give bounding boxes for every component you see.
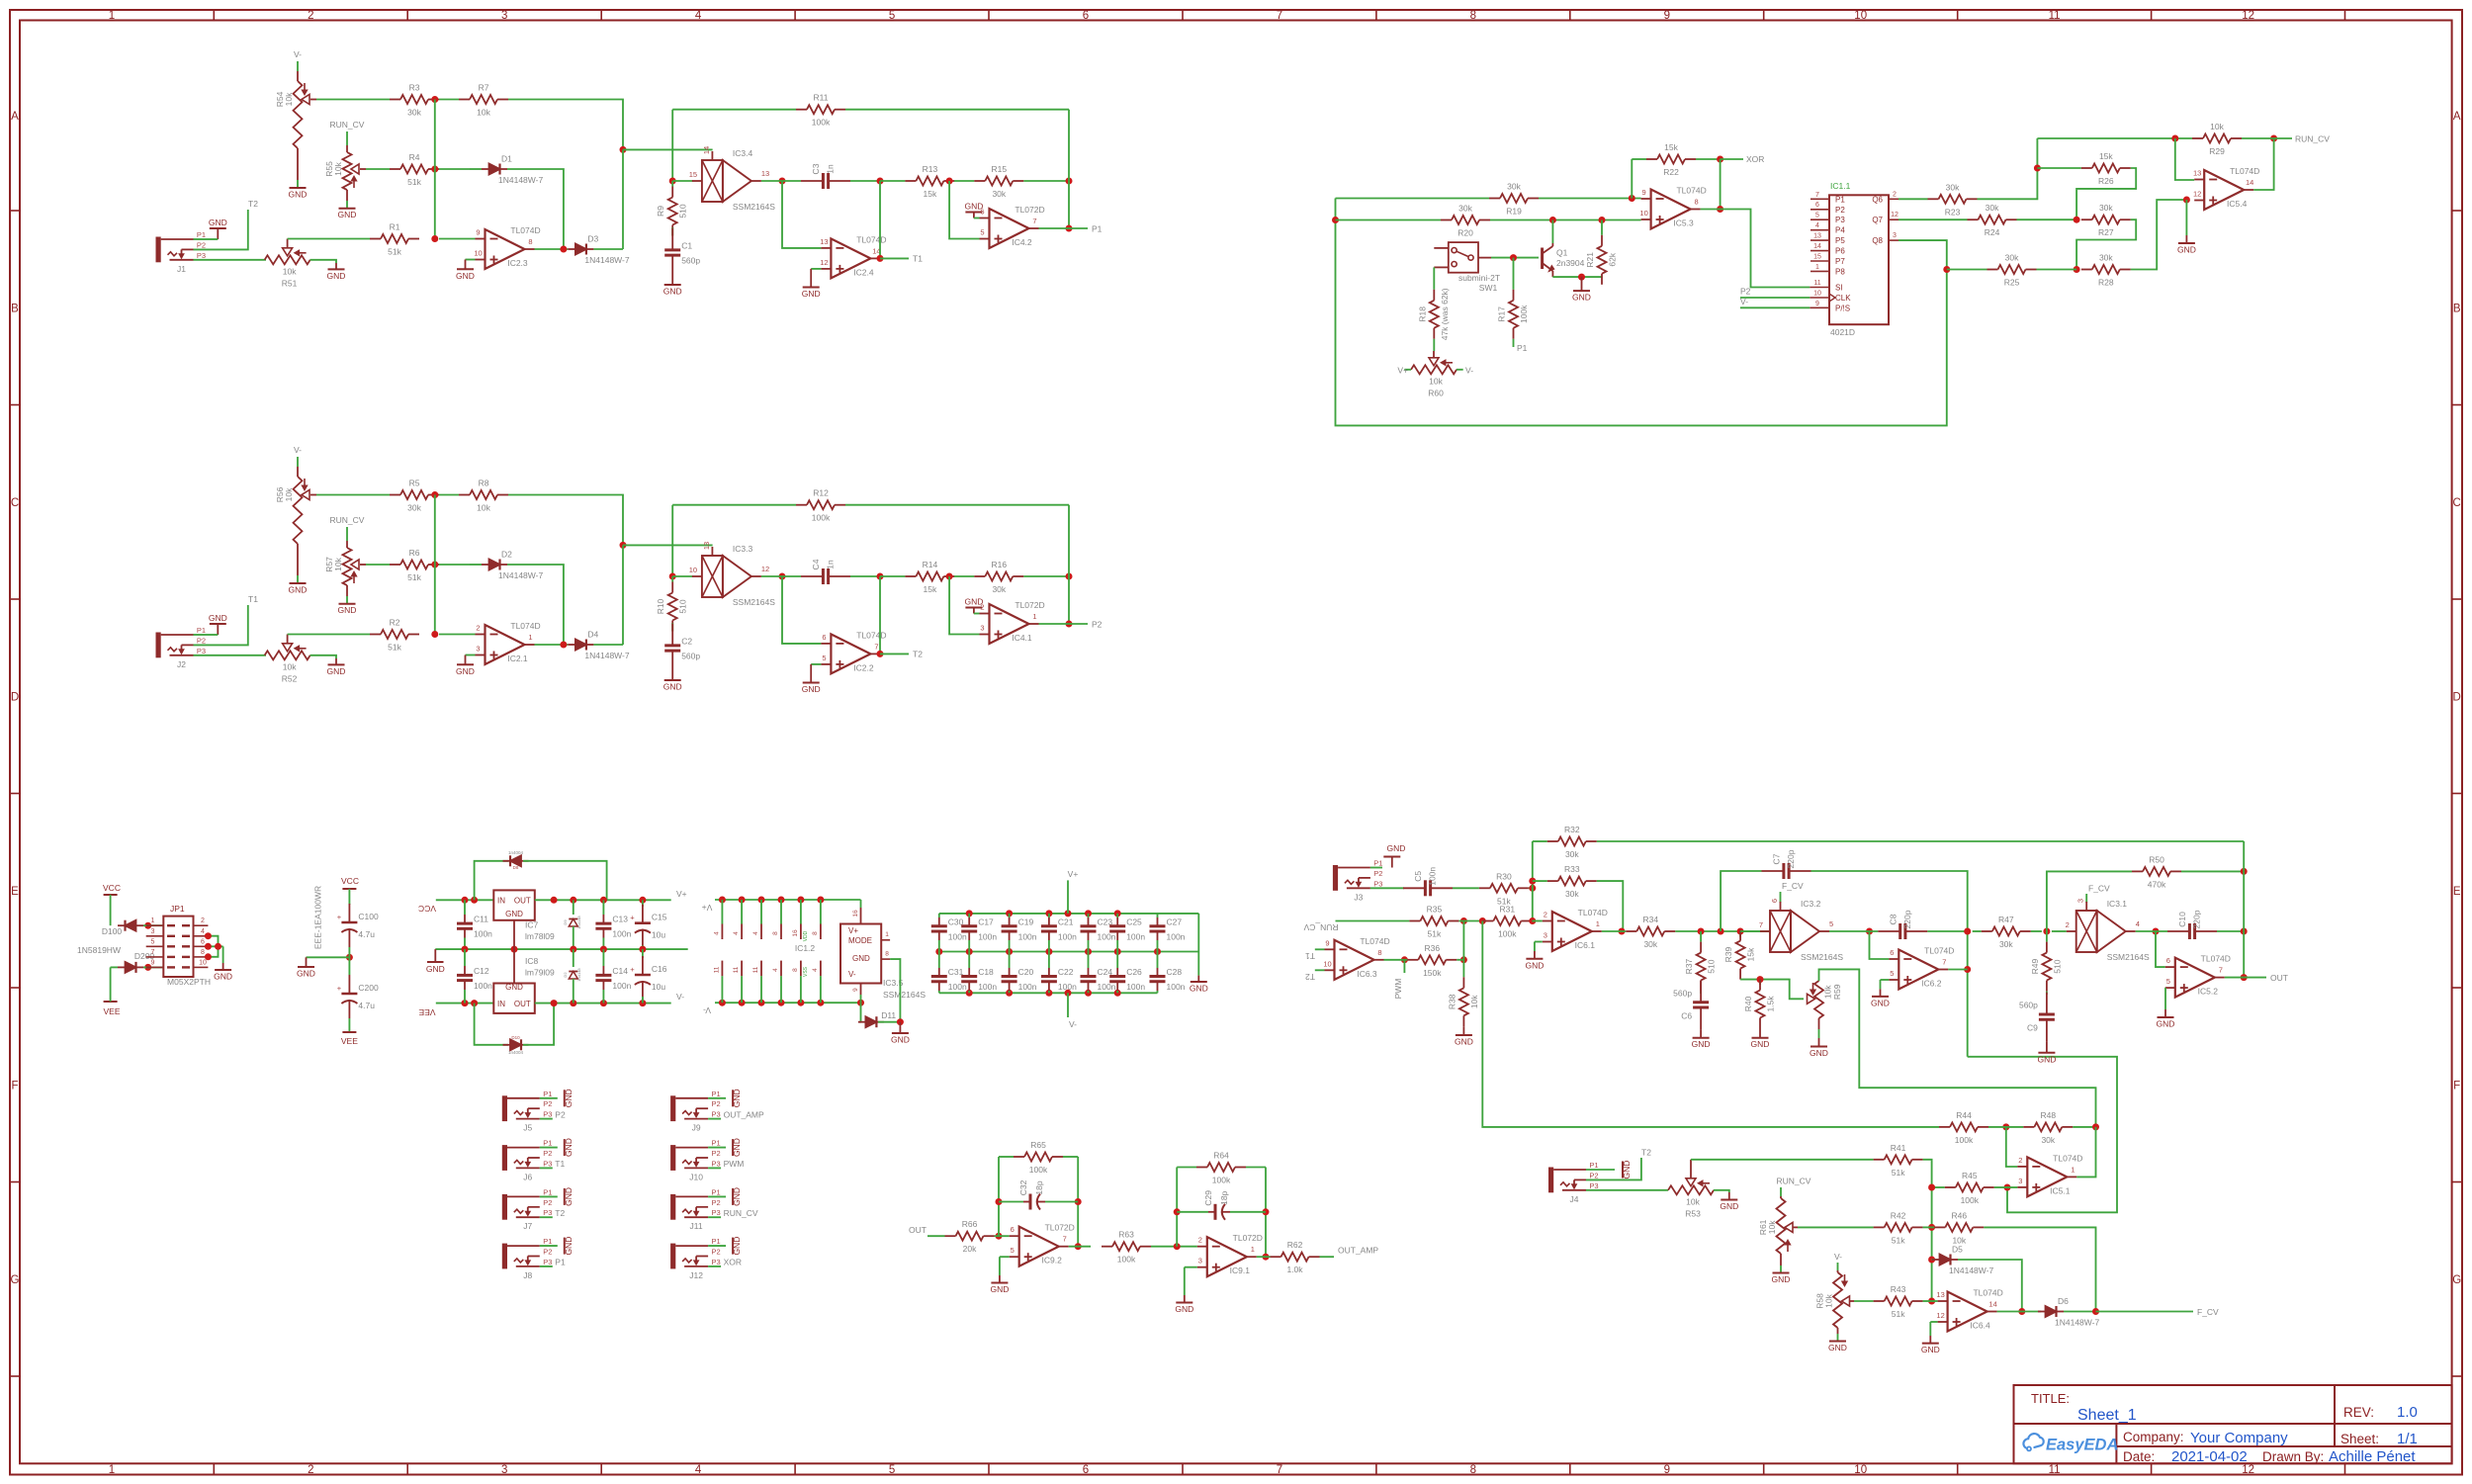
svg-text:D1: D1 — [501, 154, 512, 164]
svg-text:R35: R35 — [1427, 905, 1443, 915]
ground at IC2.3 +in — [456, 260, 475, 281]
svg-text:Drawn By:: Drawn By: — [2262, 1449, 2324, 1464]
junction — [1928, 1184, 1935, 1191]
wire fb right vertical — [1068, 110, 1070, 228]
wire to lower loop — [1968, 1057, 2117, 1213]
svg-text:R41: R41 — [1891, 1143, 1906, 1153]
svg-text:R17: R17 — [1497, 306, 1507, 322]
junction — [462, 946, 469, 953]
svg-text:R19: R19 — [1506, 207, 1522, 217]
svg-text:GND: GND — [1175, 1304, 1193, 1314]
op-amp IC2.2 TL074D — [821, 630, 886, 673]
svg-text:IC2.3: IC2.3 — [507, 258, 528, 268]
wire out — [2225, 977, 2244, 979]
svg-text:R23: R23 — [1945, 207, 1961, 217]
svg-text:RUN_CV: RUN_CV — [330, 515, 365, 525]
svg-text:C29: C29 — [1203, 1190, 1213, 1206]
net RUN_CV label — [2242, 133, 2330, 143]
svg-text:6: 6 — [2166, 956, 2170, 965]
IC IC3.5 SSM2164S power pins — [840, 900, 926, 1003]
svg-text:F: F — [2453, 1080, 2460, 1091]
resistor R34 30k — [1626, 915, 1675, 949]
svg-text:30k: 30k — [407, 108, 421, 118]
transistor Q1 2n3904 — [1543, 243, 1585, 277]
svg-text:C1: C1 — [681, 241, 692, 251]
svg-text:560p: 560p — [2019, 1001, 2038, 1010]
svg-text:8: 8 — [1470, 1464, 1476, 1476]
junction — [2043, 928, 2050, 935]
svg-text:P1: P1 — [712, 1187, 721, 1196]
junction — [877, 573, 884, 580]
junction — [2153, 928, 2160, 935]
svg-text:V-: V- — [1740, 297, 1748, 306]
ground at IC2.4 +in — [802, 269, 822, 299]
svg-text:P2: P2 — [712, 1248, 721, 1257]
net V+ label — [676, 889, 687, 899]
svg-text:P2: P2 — [1589, 1171, 1598, 1179]
junction — [560, 246, 567, 253]
wire P1 to GND — [194, 634, 204, 636]
capacitor C27 100n — [1150, 914, 1186, 952]
svg-text:GND: GND — [564, 1138, 574, 1157]
net VCC label — [103, 883, 121, 925]
svg-text:R1: R1 — [390, 222, 400, 232]
svg-text:10k: 10k — [477, 108, 490, 118]
svg-text:4: 4 — [713, 931, 720, 935]
wire out to R36 — [1384, 959, 1408, 961]
wire R23 to stair — [1978, 138, 2038, 199]
svg-text:GND: GND — [891, 1035, 910, 1045]
svg-text:C28: C28 — [1167, 967, 1183, 977]
wire R63 to -in2 — [1151, 1246, 1197, 1248]
svg-text:TL074D: TL074D — [2053, 1153, 2082, 1163]
resistor R10 510 — [656, 576, 688, 632]
svg-text:EEE-1EA100WR: EEE-1EA100WR — [313, 886, 323, 949]
diode D6 1N4148W-7 — [2038, 1296, 2099, 1328]
svg-text:10k: 10k — [333, 557, 343, 570]
junction — [431, 235, 438, 242]
svg-text:GND: GND — [852, 954, 870, 963]
EasyEDA logo — [2023, 1434, 2118, 1453]
resistor R32 30k — [1533, 825, 1597, 859]
svg-text:IC9.1: IC9.1 — [1230, 1266, 1251, 1275]
resistor R4 51k — [390, 152, 439, 187]
svg-text:51k: 51k — [1892, 1235, 1905, 1245]
junction — [639, 897, 646, 904]
net T1 (rot) at IC6.3 — [1305, 949, 1325, 961]
svg-text:Q7: Q7 — [1872, 216, 1883, 224]
wire R3-R7 — [439, 99, 459, 101]
svg-text:1N4148W-7: 1N4148W-7 — [584, 651, 629, 660]
junction — [1928, 1298, 1935, 1305]
junction — [1698, 928, 1705, 935]
svg-text:3: 3 — [1544, 931, 1547, 940]
svg-text:lm79l09: lm79l09 — [525, 968, 555, 978]
wire R20 to +in — [1490, 219, 1641, 221]
wire VCA top-D3 vertical — [622, 545, 624, 645]
svg-text:IN: IN — [497, 897, 505, 906]
svg-text:GND: GND — [564, 1187, 574, 1206]
ground at J4 P1 — [1586, 1161, 1632, 1179]
net V- at R60 — [1457, 365, 1473, 375]
junction — [1529, 885, 1536, 892]
wire out to C3 right — [879, 181, 881, 258]
ground at IC9.2 +in — [990, 1257, 1009, 1294]
svg-text:P3: P3 — [543, 1159, 552, 1168]
svg-text:560p: 560p — [681, 652, 700, 661]
svg-text:10k: 10k — [1686, 1196, 1700, 1206]
op-amp IC5.3 TL074D — [1639, 186, 1706, 229]
wire R18 to R60 — [1433, 339, 1435, 351]
diode D2 1N4148W-7 — [470, 550, 543, 581]
op-amp IC4.1 TL072D — [980, 600, 1045, 644]
svg-text:10: 10 — [199, 959, 207, 966]
junction — [2074, 266, 2080, 273]
wire IC7 out rail — [535, 899, 671, 901]
svg-text:R30: R30 — [1496, 871, 1512, 881]
junction — [1737, 928, 1744, 935]
diode D8 bypass top — [475, 850, 607, 900]
svg-text:1: 1 — [2071, 1165, 2075, 1174]
title block text — [2031, 1391, 2418, 1465]
svg-text:P2: P2 — [1835, 206, 1845, 215]
resistor R25 30k — [1947, 253, 2037, 288]
svg-text:C: C — [2453, 497, 2461, 509]
svg-text:GND: GND — [732, 1089, 742, 1107]
svg-text:C14: C14 — [612, 966, 628, 976]
resistor R64 100k — [1177, 1151, 1266, 1185]
svg-text:R48: R48 — [2041, 1110, 2057, 1120]
svg-text:7: 7 — [1277, 1464, 1282, 1476]
resistor R35 51k — [1409, 905, 1458, 939]
junction — [1066, 178, 1073, 185]
svg-text:R60: R60 — [1428, 388, 1444, 397]
svg-text:12: 12 — [1936, 1311, 1944, 1320]
op-amp IC9.2 TL072D — [1010, 1223, 1075, 1266]
svg-text:30k: 30k — [992, 189, 1006, 199]
svg-text:GND: GND — [1190, 984, 1208, 994]
junction — [779, 178, 786, 185]
svg-text:GND: GND — [426, 964, 445, 974]
ground left of C100 — [297, 957, 349, 978]
svg-text:R43: R43 — [1891, 1284, 1906, 1294]
capacitor C20 100n — [1002, 952, 1037, 994]
svg-text:A: A — [11, 111, 19, 123]
resistor R7 10k — [459, 83, 508, 118]
svg-text:100n: 100n — [474, 981, 492, 991]
VCA IC3.2 SSM2164S — [1759, 899, 1843, 962]
svg-text:100k: 100k — [1029, 1165, 1048, 1175]
svg-text:F_CV: F_CV — [2197, 1307, 2219, 1317]
svg-text:R59: R59 — [1832, 984, 1842, 1000]
svg-text:6: 6 — [1815, 202, 1819, 209]
ground at IC5.2 +in — [2157, 988, 2175, 1028]
diode D10 bypass bottom — [475, 1004, 554, 1055]
svg-text:C7: C7 — [1772, 853, 1782, 864]
svg-text:V+: V+ — [848, 926, 858, 935]
wire vca out to C3 — [761, 180, 801, 182]
zener D9 column — [563, 900, 581, 949]
svg-text:TL074D: TL074D — [2230, 166, 2259, 176]
svg-text:100n: 100n — [948, 931, 967, 941]
svg-text:C18: C18 — [978, 967, 994, 977]
potentiometer R52 10k — [264, 635, 310, 684]
wire R1 to opamp — [439, 634, 476, 636]
svg-text:P4: P4 — [1835, 226, 1845, 235]
junction — [639, 946, 646, 953]
svg-text:100n: 100n — [978, 982, 997, 992]
resistor R1 51k — [370, 222, 419, 257]
svg-text:P1: P1 — [543, 1139, 552, 1148]
svg-text:D10: D10 — [511, 1035, 520, 1040]
svg-text:GND: GND — [1525, 960, 1544, 970]
svg-text:1: 1 — [1596, 919, 1600, 928]
svg-text:5: 5 — [2166, 977, 2170, 986]
svg-text:E: E — [2453, 886, 2461, 898]
svg-text:P1: P1 — [543, 1187, 552, 1196]
svg-text:4: 4 — [2136, 919, 2140, 928]
svg-text:C2: C2 — [681, 637, 692, 647]
svg-text:T1: T1 — [913, 254, 923, 264]
net XOR label — [1721, 154, 1765, 164]
svg-text:GND: GND — [289, 190, 308, 200]
cap bank GND rail — [935, 948, 1207, 994]
ground at IC6.2 +in — [1871, 980, 1890, 1007]
VCA IC3.1 SSM2164S — [2066, 899, 2150, 962]
wire to IC5.1 -in — [2006, 1127, 2018, 1167]
junction — [1174, 1243, 1181, 1250]
svg-text:2n3904: 2n3904 — [1556, 258, 1585, 268]
junction — [205, 943, 212, 950]
svg-text:P3: P3 — [543, 1258, 552, 1266]
junction — [996, 1198, 1003, 1205]
capacitor C13 100n — [595, 900, 631, 949]
junction — [2241, 868, 2248, 875]
svg-text:P2: P2 — [1092, 620, 1103, 630]
wire SW1 to base — [1491, 257, 1539, 259]
wire R29 left to -in — [2175, 138, 2194, 180]
svg-text:GND: GND — [990, 1284, 1009, 1294]
junction — [1599, 217, 1606, 223]
svg-text:R4: R4 — [409, 152, 420, 162]
wire P3 to pot — [194, 259, 265, 261]
svg-text:IC3.1: IC3.1 — [2107, 899, 2128, 909]
ground right of R52 — [310, 655, 346, 676]
junction — [1263, 1254, 1270, 1261]
svg-text:12: 12 — [1891, 212, 1898, 218]
svg-text:510: 510 — [1707, 959, 1717, 973]
svg-text:100k: 100k — [1519, 305, 1529, 323]
resistor R8 10k — [459, 479, 508, 513]
wire R30 to node — [1529, 887, 1533, 889]
resistor R39 15k — [1723, 930, 1756, 980]
svg-text:7: 7 — [1942, 958, 1946, 967]
svg-text:OUT: OUT — [2270, 973, 2288, 983]
svg-text:7: 7 — [1063, 1235, 1067, 1244]
svg-text:GND: GND — [456, 271, 475, 281]
svg-text:J1: J1 — [177, 264, 186, 274]
net VEE label — [103, 967, 120, 1016]
svg-text:R33: R33 — [1564, 864, 1580, 874]
capacitor C12 100n — [457, 949, 492, 1004]
net OUT_AMP label — [1320, 1246, 1379, 1258]
net T2 label — [880, 650, 923, 659]
svg-text:1: 1 — [528, 633, 532, 642]
resistor R21 62k — [1585, 220, 1618, 285]
svg-text:P2: P2 — [712, 1198, 721, 1207]
capacitor C5 100n — [1403, 867, 1453, 897]
wire input vertical — [1532, 841, 1534, 921]
wire R31 node to R44 — [1482, 921, 1939, 1127]
svg-text:G: G — [11, 1274, 20, 1286]
wire D3 to vertical — [593, 644, 623, 646]
svg-text:GND: GND — [1455, 1037, 1473, 1047]
svg-text:14: 14 — [1988, 1300, 1996, 1309]
wire R4-D1 — [439, 168, 470, 170]
svg-text:3: 3 — [501, 10, 507, 22]
svg-text:4: 4 — [752, 931, 759, 935]
svg-text:V-: V- — [1834, 1252, 1842, 1262]
resistor R29 10k — [2192, 122, 2242, 156]
svg-text:R5: R5 — [409, 479, 420, 488]
junction — [462, 897, 469, 904]
svg-text:R53: R53 — [1685, 1208, 1701, 1218]
junction — [431, 96, 438, 103]
wire out — [1039, 227, 1070, 229]
svg-text:F: F — [11, 1080, 18, 1091]
svg-text:2: 2 — [980, 603, 984, 612]
wire R7 to VCA top — [508, 495, 623, 546]
svg-text:1.5k: 1.5k — [1766, 996, 1776, 1012]
svg-text:RUN_CV: RUN_CV — [724, 1208, 758, 1218]
svg-text:D11: D11 — [881, 1010, 896, 1020]
svg-text:GND: GND — [732, 1187, 742, 1206]
svg-text:2: 2 — [1198, 1236, 1202, 1245]
svg-text:IC2.4: IC2.4 — [853, 267, 874, 277]
resistor R16 30k — [974, 560, 1023, 594]
svg-text:IC5.2: IC5.2 — [2198, 987, 2219, 997]
junction — [1066, 225, 1073, 232]
svg-text:GND: GND — [1921, 1345, 1940, 1354]
junction — [639, 1000, 646, 1006]
potentiometer R55 10k — [324, 145, 366, 190]
junction — [2034, 165, 2041, 172]
wire R35 node down — [1462, 921, 1464, 960]
svg-text:C21: C21 — [1058, 917, 1074, 926]
capacitor C3 1n — [801, 163, 850, 189]
svg-text:V-: V- — [1465, 365, 1473, 375]
wire R19 row left — [1336, 198, 1490, 200]
junction — [669, 178, 676, 185]
svg-text:11: 11 — [733, 966, 740, 973]
svg-text:GND: GND — [338, 210, 357, 219]
junction — [600, 946, 607, 953]
resistor R19 30k — [1489, 182, 1539, 217]
wire +in stub — [2007, 1186, 2017, 1188]
ground at IC6.1 +in — [1525, 942, 1544, 971]
svg-text:30k: 30k — [1946, 182, 1960, 192]
svg-text:V-: V- — [294, 445, 302, 455]
wire R15 to fb node — [1023, 180, 1069, 182]
svg-text:7: 7 — [1815, 192, 1819, 199]
svg-text:GND: GND — [505, 910, 523, 918]
svg-text:P3: P3 — [712, 1110, 721, 1119]
svg-text:GND: GND — [1871, 998, 1890, 1007]
wire summing vertical — [434, 100, 436, 239]
svg-text:GND: GND — [564, 1089, 574, 1107]
junction — [946, 178, 953, 185]
svg-text:P2: P2 — [543, 1198, 552, 1207]
svg-text:100n: 100n — [978, 931, 997, 941]
jack J2 (PJ301M) — [156, 626, 207, 669]
svg-text:100n: 100n — [1058, 931, 1077, 941]
junction — [1529, 917, 1536, 924]
svg-text:R18: R18 — [1417, 306, 1427, 322]
svg-text:100k: 100k — [1498, 929, 1517, 939]
capacitor C21 100n — [1041, 914, 1077, 952]
svg-text:IC8: IC8 — [525, 956, 539, 966]
svg-text:4: 4 — [1815, 222, 1819, 229]
svg-text:GND: GND — [209, 218, 227, 227]
net RUN_CV (rot) label — [1303, 921, 1409, 933]
svg-text:10: 10 — [1323, 959, 1331, 968]
net T2 at jack P2 — [194, 199, 259, 249]
wire fb right vertical — [1068, 505, 1070, 624]
wire R61 to R42 — [1798, 1226, 1874, 1228]
svg-text:MODE: MODE — [848, 936, 872, 945]
svg-text:6: 6 — [1083, 10, 1089, 22]
svg-text:30k: 30k — [1986, 203, 1999, 213]
svg-text:D6: D6 — [2058, 1296, 2069, 1306]
capacitor C14 100n — [595, 949, 631, 1004]
wire C3-R13 — [880, 180, 905, 182]
svg-text:V-: V- — [1069, 1019, 1077, 1029]
potentiometer R51 10k — [264, 239, 310, 289]
svg-text:C8: C8 — [1888, 914, 1898, 924]
svg-text:C17: C17 — [978, 917, 994, 926]
power rail V+ of IC1.2 array — [702, 897, 861, 914]
svg-text:TL074D: TL074D — [1973, 1288, 2002, 1298]
svg-text:P2: P2 — [197, 240, 206, 249]
junction — [600, 1000, 607, 1006]
wire pot3 wiper to R1 — [288, 238, 370, 240]
resistor R3 30k — [390, 83, 439, 118]
svg-text:1: 1 — [109, 10, 115, 22]
svg-text:IC3.3: IC3.3 — [733, 544, 753, 554]
svg-text:1: 1 — [1032, 612, 1036, 621]
svg-text:VCC: VCC — [103, 883, 121, 893]
svg-text:TL074D: TL074D — [1676, 186, 1706, 196]
svg-text:J3: J3 — [1354, 892, 1363, 902]
jack J3 (PJ301M) — [1333, 859, 1383, 903]
wire P3 to pot — [194, 655, 265, 656]
wire fb2 right vertical — [1265, 1168, 1267, 1258]
wire XOR node to out — [1720, 159, 1722, 210]
wire pins 4-6-8 join — [208, 936, 222, 957]
svg-text:30k: 30k — [2099, 203, 2113, 213]
wire node to pin7 — [1740, 930, 1760, 932]
svg-text:15k: 15k — [1746, 947, 1756, 961]
junction — [1066, 573, 1073, 580]
wire R25-R28 — [2037, 269, 2077, 271]
svg-text:T2: T2 — [913, 650, 923, 659]
svg-text:13: 13 — [2193, 169, 2201, 178]
svg-text:SSM2164S: SSM2164S — [2107, 952, 2150, 962]
wire IC3.1 out to -in — [2156, 931, 2165, 967]
svg-text:GND: GND — [456, 666, 475, 676]
svg-text:1N5819HW: 1N5819HW — [77, 945, 121, 955]
svg-text:J8: J8 — [523, 1270, 532, 1280]
